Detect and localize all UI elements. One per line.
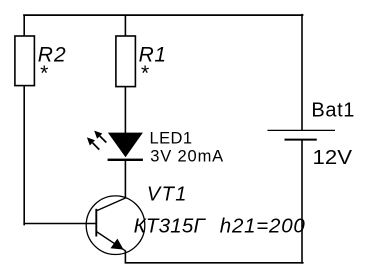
svg-text:VT1: VT1 xyxy=(147,183,187,205)
transistor VT1: emitter line xyxy=(96,232,125,251)
resistor R1 xyxy=(116,36,135,87)
wire: battery top lead xyxy=(301,14,303,131)
svg-text:КТ315Г: КТ315Г xyxy=(134,214,207,237)
LED LED1: anode triangle xyxy=(108,133,143,158)
transistor VT1: emitter arrowhead xyxy=(111,239,124,250)
wire: R2 bottom lead down left side xyxy=(23,86,25,225)
wire: LED cathode to collector xyxy=(124,161,126,198)
battery Bat1: positive plate xyxy=(268,129,336,131)
LED LED1: emission arrow 2 xyxy=(87,137,99,149)
wire: R2 top lead xyxy=(23,14,25,36)
svg-text:3V 20mA: 3V 20mA xyxy=(150,148,223,166)
LED LED1: cathode bar xyxy=(108,159,143,161)
wire: top rail xyxy=(23,14,303,16)
LED LED1: emission arrow 1 xyxy=(94,131,106,143)
resistor R2 xyxy=(15,36,35,86)
wire: bottom rail xyxy=(125,262,304,264)
svg-text:LED1: LED1 xyxy=(150,130,193,148)
transistor VT1: body circle xyxy=(86,196,145,255)
wire: R1 bottom lead to LED anode xyxy=(124,86,126,134)
wire: R1 top lead xyxy=(124,14,126,36)
svg-text:12V: 12V xyxy=(313,147,353,169)
battery Bat1: negative plate xyxy=(285,139,317,141)
transistor VT1: base bar xyxy=(95,209,97,237)
transistor VT1: collector line xyxy=(96,198,125,211)
svg-text:Bat1: Bat1 xyxy=(311,99,354,121)
svg-text:*: * xyxy=(140,62,149,85)
wire: battery bottom lead xyxy=(301,140,303,264)
svg-text:*: * xyxy=(39,62,48,85)
svg-text:h21=200: h21=200 xyxy=(220,214,306,237)
wire: emitter corner to bottom rail xyxy=(124,251,126,263)
wire: base wire to transistor VT1 xyxy=(23,223,96,225)
